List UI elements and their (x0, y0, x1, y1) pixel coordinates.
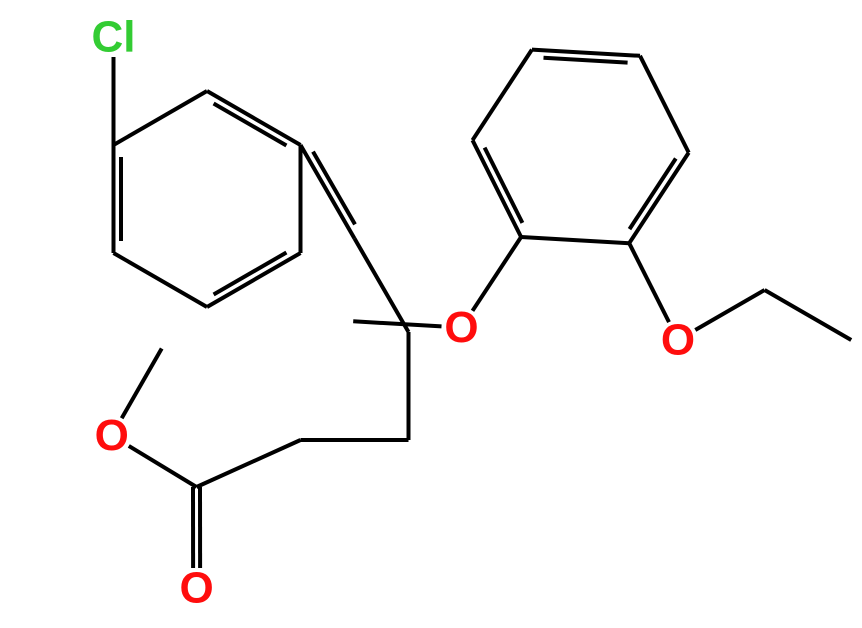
svg-text:O: O (179, 564, 213, 613)
svg-text:O: O (444, 303, 478, 352)
svg-text:O: O (661, 316, 695, 365)
svg-text:Cl: Cl (92, 13, 136, 62)
svg-text:O: O (95, 411, 129, 460)
